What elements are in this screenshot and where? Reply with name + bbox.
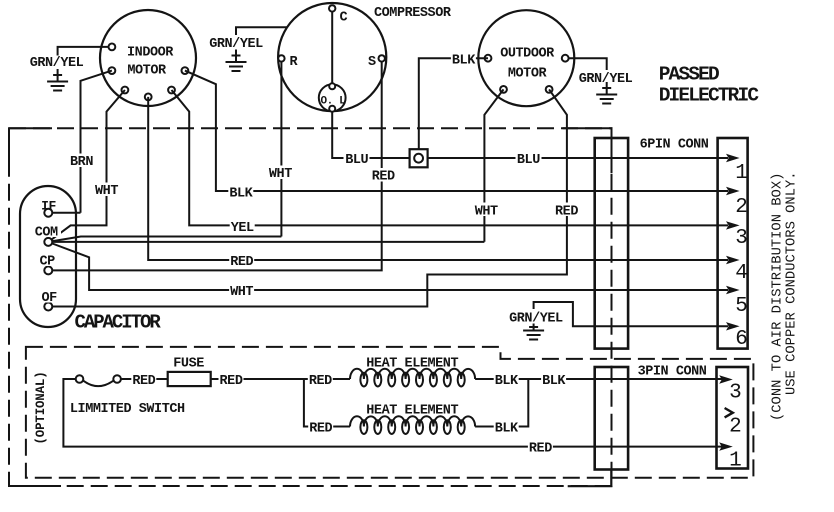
svg-text:FUSE: FUSE (173, 357, 204, 372)
label RED (131, 372, 156, 389)
heat element coil 2 (350, 404, 475, 435)
svg-text:GRN/YEL: GRN/YEL (579, 72, 633, 87)
label CP (38, 254, 58, 270)
wire WHT compressor R down (280, 62, 282, 237)
wire C to overload (331, 12, 333, 85)
wire fuse to heaters (211, 378, 350, 380)
outdoor motor pin right (562, 55, 569, 62)
svg-text:LIMMITED SWITCH: LIMMITED SWITCH (70, 402, 185, 417)
label BLK row1 (494, 372, 519, 389)
svg-text:PASSED: PASSED (659, 63, 719, 85)
arrow 6pin pin5 (726, 286, 740, 294)
svg-text:BRN: BRN (70, 155, 93, 170)
svg-text:USE COPPER CONDUCTORS ONLY.: USE COPPER CONDUCTORS ONLY. (785, 171, 800, 395)
fuse F1 (168, 357, 211, 387)
wire COM to compressor R (48, 237, 281, 242)
arrow 6pin pin1 (726, 154, 740, 162)
svg-text:3: 3 (735, 227, 748, 250)
arrow 6pin pin3 (726, 221, 740, 229)
wire CP to compressor S (48, 62, 381, 271)
arrow 6pin pin4 (726, 256, 740, 264)
compressor terminal C (329, 5, 335, 11)
label RED (219, 372, 244, 389)
wire GRN/YEL outdoor motor to ground (569, 58, 607, 70)
indoor motor pin 5 (145, 94, 152, 101)
label RED bottom (528, 440, 553, 457)
wire GRN/YEL compressor to ground (236, 27, 288, 35)
wire OF to outdoor RED (48, 89, 567, 306)
wire GRN/YEL 6pin pin6 to ground (534, 302, 728, 326)
main enclosure dashed border (9, 128, 612, 486)
label BLK indoor on wire (228, 185, 253, 202)
svg-text:6PIN CONN: 6PIN CONN (640, 138, 709, 153)
compressor (278, 3, 452, 111)
arrow 3pin pin3 (719, 375, 733, 383)
3 pin connector body (717, 367, 749, 469)
label WHT compressor R (268, 166, 293, 183)
svg-text:BLK: BLK (542, 374, 566, 389)
wire IF link (48, 212, 80, 214)
arrow 3pin pin2 chevron (725, 408, 733, 417)
wire BLK outdoor motor left (419, 58, 488, 149)
label RED compressor S (371, 168, 396, 185)
svg-text:WHT: WHT (269, 167, 292, 182)
svg-text:WHT: WHT (230, 285, 253, 300)
svg-text:GRN/YEL: GRN/YEL (509, 312, 563, 327)
wire WHT outdoor pin bl down (484, 89, 503, 241)
svg-text:RED: RED (309, 421, 332, 436)
ground G4 (523, 324, 544, 340)
connector pass-through box upper (595, 138, 628, 349)
svg-text:4: 4 (735, 262, 748, 285)
label YEL on wire (230, 219, 255, 236)
svg-text:RED: RED (555, 205, 578, 220)
label GRN/YEL (507, 310, 564, 327)
svg-text:RED: RED (372, 170, 395, 185)
indoor motor pin 6 (168, 87, 175, 94)
arrow 6pin pin2 (726, 187, 740, 195)
svg-text:3: 3 (729, 382, 742, 405)
indoor motor M1 (100, 10, 196, 106)
wire YEL indoor pin6 to 6pin pin3 (172, 90, 729, 225)
svg-text:5: 5 (735, 295, 748, 318)
wire COM to outdoor WHT (48, 241, 484, 243)
svg-text:DIELECTRIC: DIELECTRIC (659, 85, 760, 107)
svg-text:GRN/YEL: GRN/YEL (30, 56, 84, 71)
label BLK outdoor (451, 52, 476, 69)
svg-text:MOTOR: MOTOR (127, 64, 167, 79)
6 pin connector body (718, 138, 748, 349)
outdoor motor pin bottom-right (546, 86, 553, 93)
connector pass-through box lower (595, 367, 628, 470)
label RED row1 (308, 372, 333, 389)
svg-text:IF: IF (41, 199, 56, 214)
wire RED switch to 3pin pin1 (63, 379, 723, 447)
compressor terminal S (379, 55, 385, 61)
svg-text:MOTOR: MOTOR (508, 67, 548, 82)
svg-text:RED: RED (309, 374, 332, 389)
label COM (33, 225, 61, 241)
wire RED indoor pin5 to 6pin pin4 (148, 97, 728, 260)
svg-text:(OPTIONAL): (OPTIONAL) (34, 371, 48, 444)
svg-text:RED: RED (529, 441, 552, 456)
ground G1 (47, 69, 68, 91)
svg-text:BLU: BLU (517, 153, 540, 168)
svg-text:6: 6 (735, 328, 748, 351)
svg-text:COMPRESSOR: COMPRESSOR (374, 6, 452, 21)
main enclosure corner solid runs (9, 128, 612, 486)
label WHT on wire (229, 284, 254, 301)
svg-text:HEAT ELEMENT: HEAT ELEMENT (366, 357, 458, 372)
terminal block square (410, 149, 428, 167)
svg-text:CAPACITOR: CAPACITOR (75, 312, 162, 334)
label WHT outdoor (474, 203, 499, 220)
label BLK row2 (494, 420, 519, 437)
svg-text:OF: OF (41, 291, 57, 306)
limit switch (70, 375, 185, 417)
svg-text:2: 2 (735, 196, 748, 219)
svg-text:(CONN TO AIR DISTRIBUTION BOX): (CONN TO AIR DISTRIBUTION BOX) (770, 173, 786, 421)
capacitor body (20, 186, 161, 334)
indoor motor pin 4 (122, 87, 129, 94)
svg-text:3PIN CONN: 3PIN CONN (638, 365, 707, 380)
overload O.L (319, 83, 346, 111)
svg-text:1: 1 (729, 449, 742, 472)
outdoor motor pin left (485, 55, 492, 62)
ground G3 (596, 82, 617, 104)
label BLU right (516, 152, 542, 169)
svg-text:C: C (340, 11, 348, 26)
wire WHT COM to 6pin pin5 (48, 242, 728, 290)
svg-text:2: 2 (729, 415, 742, 438)
compressor terminal R (278, 55, 284, 61)
heat element coil 1 (350, 357, 475, 387)
branch wire down to row2 (304, 379, 350, 427)
svg-text:HEAT ELEMENT: HEAT ELEMENT (366, 404, 458, 419)
indoor motor pin 3 (182, 67, 189, 74)
label RED row2 (308, 420, 333, 437)
wire heater1 to 3pin pin3 (475, 378, 723, 380)
svg-text:COM: COM (35, 226, 58, 241)
indoor motor pin 1 (109, 44, 116, 51)
indoor motor pin 2 (109, 67, 116, 74)
svg-text:WHT: WHT (475, 205, 498, 220)
svg-text:BLK: BLK (229, 187, 253, 202)
label BLK junction (541, 372, 566, 389)
ground G2 (226, 50, 247, 72)
arrow 3pin pin1 (719, 442, 733, 450)
svg-text:RED: RED (220, 374, 243, 389)
svg-text:BLU: BLU (345, 153, 368, 168)
svg-text:R: R (290, 55, 299, 70)
capacitor terminal IF (44, 209, 52, 217)
arrow 6pin pin6 (726, 322, 740, 330)
svg-text:RED: RED (230, 255, 253, 270)
outdoor motor pin bottom-left (500, 86, 507, 93)
wire WHT indoor pin4 to COM (48, 90, 125, 242)
capacitor terminal COM (44, 238, 52, 246)
label RED on wire (229, 254, 254, 271)
wire BLK indoor pin3 to 6pin pin2 (185, 71, 728, 191)
outdoor motor M2 (478, 10, 574, 106)
wire heater2 to junction (475, 379, 528, 427)
label BLU left (344, 152, 370, 169)
capacitor terminal CP (44, 266, 52, 274)
wire switch to fuse (121, 378, 167, 380)
svg-text:BLK: BLK (495, 374, 519, 389)
svg-text:BLK: BLK (495, 421, 519, 436)
svg-text:WHT: WHT (95, 184, 118, 199)
svg-text:YEL: YEL (231, 221, 254, 236)
svg-text:RED: RED (132, 374, 155, 389)
svg-text:INDOOR: INDOOR (127, 46, 174, 61)
wire BLU overload to 6pin pin1 (332, 112, 728, 158)
svg-text:OUTDOOR: OUTDOOR (500, 46, 555, 61)
svg-text:O. L: O. L (320, 96, 346, 108)
svg-text:S: S (368, 55, 376, 70)
svg-text:CP: CP (40, 255, 56, 270)
svg-text:1: 1 (735, 162, 748, 185)
label WHT (94, 183, 119, 200)
bottom border hook (568, 470, 612, 487)
wire GRN/YEL indoor motor to ground (58, 47, 109, 56)
wire BRN indoor pin2 to IF (81, 71, 112, 213)
capacitor terminal OF (44, 303, 52, 311)
optional section dashed border (26, 347, 754, 478)
label BRN (69, 154, 94, 171)
svg-text:BLK: BLK (452, 54, 476, 69)
label OF (39, 291, 59, 307)
label RED outdoor (554, 203, 579, 220)
